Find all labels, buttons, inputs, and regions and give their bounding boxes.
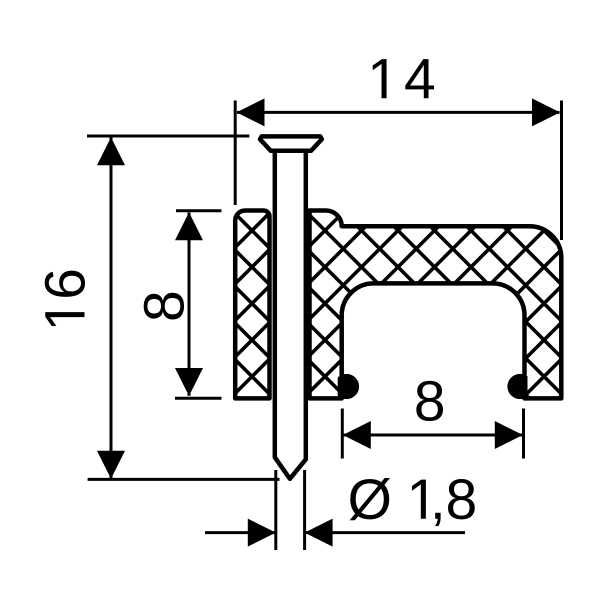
dim 1.8 right line xyxy=(305,531,465,534)
dim 8 horizontal label xyxy=(416,381,443,421)
dim 16 top arrow xyxy=(97,137,125,165)
dim 8 horizontal right arrow xyxy=(495,421,523,449)
dim 16 bottom arrow xyxy=(97,451,125,479)
right foot dot xyxy=(507,374,532,399)
dim 1.8 left extension line xyxy=(274,470,277,550)
dim 8 vertical top arrow xyxy=(175,212,203,240)
dim 16 line xyxy=(110,138,113,479)
dim 16 label xyxy=(45,271,85,326)
dim 8 horizontal line xyxy=(343,434,523,437)
dim 16 top extension line xyxy=(87,135,249,138)
dim 8 horizontal left extension line xyxy=(341,409,344,459)
clip left column (hatched) xyxy=(235,211,269,399)
dim 8 vertical bottom arrow xyxy=(175,368,203,396)
dim 1.8 right arrow xyxy=(305,519,333,547)
nail shank xyxy=(275,148,306,479)
dim 8 horizontal left arrow xyxy=(343,421,371,449)
dim 14 label xyxy=(373,59,434,98)
dim 14 left arrow xyxy=(237,98,265,126)
clip main body (hatched) xyxy=(310,211,562,399)
dim 8 vertical label xyxy=(144,293,184,320)
left foot dot xyxy=(334,374,359,399)
dim 1.8 label xyxy=(350,478,475,526)
dim 14 left extension line xyxy=(234,101,237,206)
dim 1.8 left line xyxy=(205,531,276,534)
dim 14 right arrow xyxy=(532,98,560,126)
dim 8 vertical line xyxy=(188,213,191,396)
dim 1.8 right extension line xyxy=(303,470,306,550)
dim 16 bottom extension line xyxy=(88,478,280,481)
dim 14 right extension line xyxy=(560,101,563,241)
dim 14 line xyxy=(237,111,560,114)
dim 8 vertical top extension line xyxy=(176,209,222,212)
dim 1.8 left arrow xyxy=(248,519,276,547)
dim 8 horizontal right extension line xyxy=(522,409,525,459)
nail head xyxy=(260,136,322,150)
dim 8 vertical bottom extension line xyxy=(175,397,222,400)
